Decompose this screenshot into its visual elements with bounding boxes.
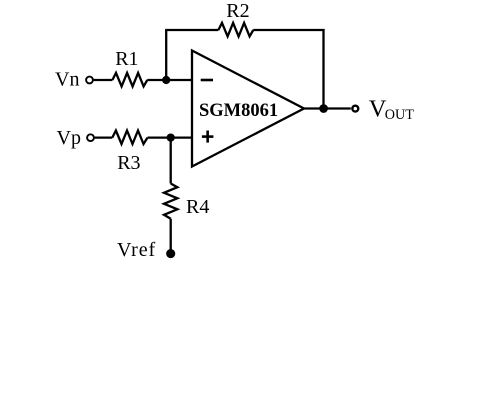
svg-text:SGM8061: SGM8061: [199, 101, 278, 121]
wire node B down to R4: [170, 138, 172, 184]
wire Vn terminal to R1: [94, 79, 113, 81]
wire R1 to op-amp inverting input: [147, 79, 192, 81]
node A inverting input junction: [163, 77, 169, 83]
svg-text:Vref: Vref: [117, 239, 156, 261]
wire R4 to Vref terminal: [170, 219, 172, 254]
svg-text:Vp: Vp: [57, 127, 81, 149]
resistor R3: [112, 131, 147, 145]
resistor R2: [218, 23, 253, 37]
svg-text:R4: R4: [186, 196, 209, 218]
svg-text:R1: R1: [115, 48, 138, 70]
node Vref terminal dot: [167, 250, 174, 257]
resistor R1: [112, 73, 147, 87]
wire R2 to output vertical: [253, 29, 324, 31]
op-amp U1 triangle: [192, 51, 304, 167]
wire feedback right vertical: [322, 29, 324, 109]
terminal VOUT: [352, 106, 358, 112]
terminal Vp: [87, 134, 94, 141]
wire feedback left vertical: [165, 30, 167, 81]
op-amp inverting input minus symbol: [201, 79, 213, 82]
svg-text:Vn: Vn: [55, 69, 79, 91]
wire op-amp output to VOUT terminal: [304, 107, 351, 109]
wire top left segment to R2: [165, 29, 218, 31]
node output junction: [320, 105, 326, 111]
op-amp non-inverting input plus symbol: [202, 131, 214, 143]
resistor R4: [164, 184, 177, 219]
node B non-inverting input junction: [168, 135, 174, 141]
svg-text:R2: R2: [226, 0, 249, 22]
wire R3 to op-amp non-inverting input: [148, 136, 193, 138]
terminal Vn: [86, 77, 93, 84]
svg-text:R3: R3: [117, 152, 140, 174]
wire Vp terminal to R3: [95, 136, 113, 138]
svg-text:VOUT: VOUT: [369, 96, 414, 124]
